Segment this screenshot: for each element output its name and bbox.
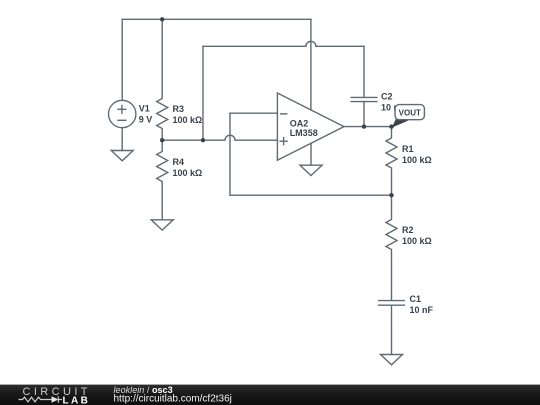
wire op-amp output [344, 126, 392, 128]
svg-text:100 kΩ: 100 kΩ [402, 155, 432, 165]
wire V1 top lead [121, 19, 123, 100]
svg-text:OA2: OA2 [290, 118, 309, 128]
resistor R3 [157, 19, 168, 140]
capacitor C1 [378, 301, 405, 306]
label R1 value [402, 144, 432, 165]
wire V1 bottom lead [121, 128, 123, 151]
resistor R4 [157, 140, 168, 220]
wire inverting input stub [230, 112, 277, 114]
resistor R2 [386, 195, 397, 300]
wire C1 bottom lead [391, 305, 393, 354]
svg-text:100 kΩ: 100 kΩ [173, 115, 203, 125]
voltage source V1 [109, 100, 136, 127]
svg-text:R1: R1 [402, 144, 414, 154]
svg-text:V1: V1 [139, 104, 150, 114]
svg-text:C2: C2 [381, 92, 393, 102]
node: top rail / R3 [160, 17, 164, 21]
ground (R4) [151, 220, 173, 230]
svg-text:http://circuitlab.com/cf2t36j: http://circuitlab.com/cf2t36j [114, 394, 232, 405]
svg-text:100 kΩ: 100 kΩ [173, 168, 203, 178]
svg-text:R4: R4 [173, 157, 185, 167]
node: R1/R2/feedback [389, 193, 393, 197]
node: output / C2 [362, 124, 366, 128]
capacitor C2 [351, 97, 378, 101]
label OA2 LM358 [290, 118, 318, 138]
ground (op-amp) [300, 165, 322, 175]
junction dots [160, 17, 394, 197]
footer title text [114, 385, 232, 405]
label C1 value [410, 294, 434, 315]
node VOUT flag [392, 105, 425, 128]
wire C2 lower lead [363, 102, 365, 127]
wire noninverting input net (R3/R4 junction to op-amp +, hop over feedback) [162, 135, 277, 140]
svg-text:R2: R2 [402, 225, 414, 235]
wire feedback bottom horizontal [230, 194, 392, 196]
node: output / R1 / VOUT [389, 124, 393, 128]
svg-text:100 kΩ: 100 kΩ [402, 236, 432, 246]
wire top rail [122, 18, 311, 20]
label C2 value [381, 92, 405, 113]
wire C2 upper lead [363, 46, 365, 97]
wire C2 top branch (hop over supply) [203, 41, 364, 46]
wire node A vertical (junction to C2 branch) [202, 46, 204, 140]
wire op-amp ground stub [310, 143, 312, 165]
svg-text:VOUT: VOUT [399, 109, 421, 118]
svg-text:10 nF: 10 nF [410, 305, 434, 315]
ground (V1) [111, 151, 133, 161]
ground (C1) [381, 355, 403, 365]
svg-text:R3: R3 [173, 104, 185, 114]
label R3 value [173, 104, 203, 125]
wire feedback vertical [229, 113, 231, 195]
node: R3/R4 junction [160, 138, 164, 142]
label R4 value [173, 157, 203, 178]
svg-text:9 V: 9 V [139, 115, 153, 125]
svg-text:LM358: LM358 [290, 128, 318, 138]
svg-text:C1: C1 [410, 294, 422, 304]
resistor R1 [386, 127, 397, 196]
CircuitLab logo [19, 386, 91, 405]
node: +input / C2 branch [201, 138, 205, 142]
svg-text:LAB: LAB [63, 395, 91, 405]
op-amp OA2 LM358 [277, 93, 344, 160]
wire positive supply drop [310, 19, 312, 110]
label V1 value [139, 104, 153, 125]
label R2 value [402, 225, 432, 246]
